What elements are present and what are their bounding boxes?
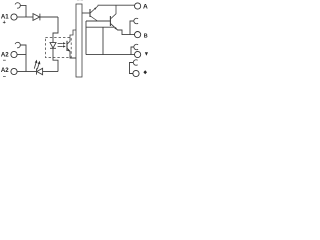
wire H3 stub and drop to T4 — [130, 63, 134, 74]
terminal A2b circle — [11, 68, 17, 74]
phototransistor emitter with arrow — [67, 48, 76, 58]
wire H1 stub and drop to T2 — [130, 21, 134, 35]
bridge socket H2 — [134, 44, 138, 49]
transistor Q1 base bar — [89, 9, 91, 17]
terminal T2 circle — [135, 31, 141, 37]
wire diode to drop — [40, 16, 58, 18]
svg-text:A2: A2 — [1, 67, 9, 74]
diode D1 — [33, 14, 40, 21]
phototransistor collector — [67, 30, 76, 44]
light arrow 2 — [58, 45, 63, 47]
indicator LED on A2 line — [36, 68, 38, 74]
terminal A2 circle — [11, 51, 17, 57]
LED inside optocoupler — [52, 38, 54, 43]
transistor Q2 base bar — [109, 16, 111, 26]
wire A2b to junction — [17, 71, 26, 73]
wire A2 to bus — [17, 54, 26, 56]
indicator LED arrow 1 — [34, 63, 36, 69]
wire A1 socket stub — [20, 5, 26, 17]
wire drop to optocoupler LED — [53, 17, 58, 38]
label out4 — [143, 70, 147, 74]
wire pulldown left — [85, 21, 87, 55]
electronics block U2 — [76, 4, 82, 77]
svg-text:B: B — [144, 33, 148, 39]
wire indicator LED to jog — [43, 71, 58, 73]
wire A2 socket stub and bus to A2' — [20, 45, 26, 72]
optocoupler U1 dashed box — [45, 38, 71, 58]
transistor Q1 collector — [90, 16, 98, 21]
wire LED cathode jog to indicator — [53, 58, 58, 72]
emitter rail to terminal T3 — [86, 54, 134, 56]
node line lower rung — [86, 26, 114, 28]
wire A2' to indicator LED — [26, 71, 37, 73]
bridge socket H3 — [133, 60, 137, 65]
terminal T3 circle — [135, 51, 141, 57]
transistor Q2 collector — [110, 5, 116, 19]
wire A1 to diode — [17, 16, 33, 18]
label out3 — [145, 52, 148, 56]
faint clipped marks top — [77, 0, 79, 2]
phototransistor base bar — [66, 41, 68, 51]
transistor Q2 emitter with arrow — [110, 23, 134, 34]
top rail to terminal A — [98, 4, 135, 6]
svg-text:−: − — [3, 74, 7, 80]
svg-text:+: + — [3, 20, 6, 26]
terminal A circle — [135, 3, 141, 9]
bridge socket H1 — [134, 18, 138, 23]
wire H2 stub and drop to T3 — [131, 47, 134, 55]
wire pulldown mid — [102, 27, 104, 54]
terminal A1 circle — [11, 14, 17, 20]
bridge socket above A2 — [15, 42, 20, 47]
transistor Q1 base wire — [82, 12, 90, 14]
light arrow 1 — [58, 42, 63, 44]
svg-text:A: A — [143, 3, 148, 10]
svg-text:−: − — [3, 58, 7, 64]
node line Q1 collector to Q2 base — [86, 20, 110, 22]
terminal T4 circle — [133, 70, 139, 76]
transistor Q1 emitter with arrow — [90, 5, 98, 13]
indicator LED arrow 2 — [37, 64, 39, 69]
bridge socket above A1 — [15, 3, 20, 8]
